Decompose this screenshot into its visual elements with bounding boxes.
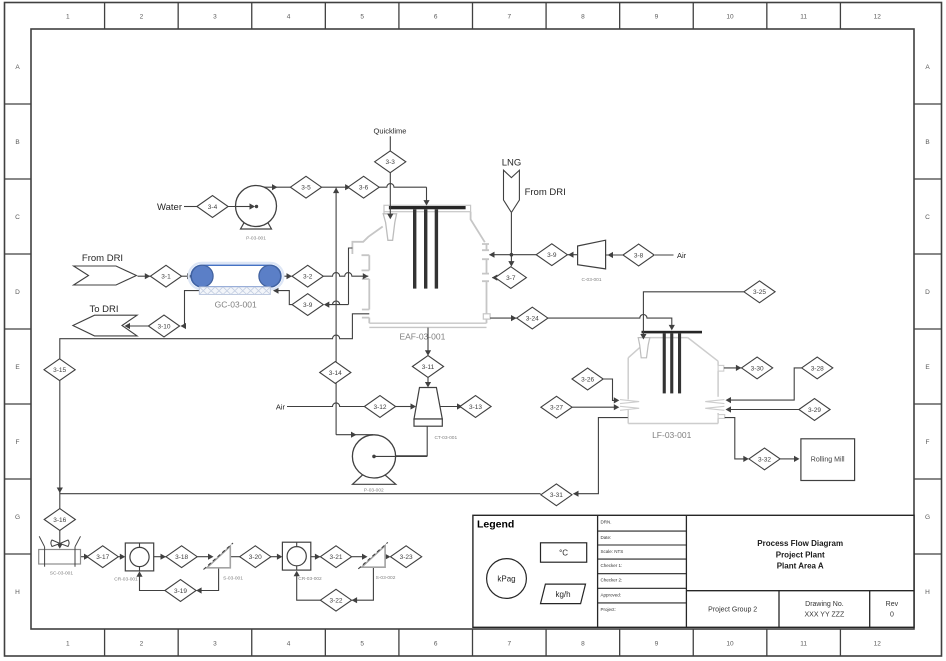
From DRI off-page arrow upper <box>74 266 137 285</box>
svg-text:7: 7 <box>507 14 511 21</box>
svg-text:S-03-002: S-03-002 <box>376 575 396 581</box>
wire 3-17 to crusher CR-03-001 <box>118 554 125 560</box>
svg-text:B: B <box>925 139 929 146</box>
svg-text:E: E <box>15 364 20 371</box>
svg-text:5: 5 <box>360 14 364 21</box>
node stream diamond 3-19 <box>165 580 196 602</box>
svg-text:3-32: 3-32 <box>758 456 771 463</box>
svg-text:3-4: 3-4 <box>208 204 218 211</box>
svg-text:3-1: 3-1 <box>161 274 171 281</box>
svg-text:C: C <box>925 214 930 221</box>
wire S-03-001 recycle to 3-19 and CR-03-001 <box>136 568 218 594</box>
node stream diamond 3-9 <box>536 244 567 266</box>
title block drawing title <box>757 539 843 571</box>
wire 3-1 to gas cooler GC <box>182 273 193 279</box>
svg-text:From DRI: From DRI <box>82 253 123 264</box>
svg-text:3-18: 3-18 <box>175 554 188 561</box>
node stream diamond 3-12 <box>364 396 395 418</box>
svg-text:kg/h: kg/h <box>555 590 570 599</box>
wire slag header from 3-31 to left <box>60 493 541 495</box>
EAF electrode 3 <box>435 209 438 288</box>
svg-text:CR-03-002: CR-03-002 <box>298 576 322 582</box>
wire 3-10 to To DRI <box>125 323 149 329</box>
EAF electrode support bar <box>389 206 466 209</box>
svg-text:Rev: Rev <box>886 601 899 608</box>
svg-text:F: F <box>16 439 20 446</box>
svg-text:3-26: 3-26 <box>581 376 594 383</box>
svg-text:To DRI: To DRI <box>89 304 118 315</box>
wire pump P-03-001 outlet to 3-5 <box>260 184 291 190</box>
vessel EAF-03-001 body <box>352 205 490 327</box>
node stream diamond 3-28 <box>802 357 833 379</box>
svg-text:kPag: kPag <box>497 574 515 583</box>
legend and title block frame <box>473 515 914 627</box>
node stream diamond 3-15 <box>44 359 75 381</box>
svg-text:3-25: 3-25 <box>753 289 766 296</box>
node stream diamond 3-9 <box>292 294 323 316</box>
svg-text:GC-03-001: GC-03-001 <box>215 300 257 310</box>
wire LF bottom right to 3-32 <box>725 418 749 462</box>
LF electrode 2 <box>670 333 673 393</box>
svg-text:3-5: 3-5 <box>301 185 311 192</box>
svg-text:0: 0 <box>890 612 894 619</box>
svg-text:3-14: 3-14 <box>329 370 342 377</box>
title block drawing number cell <box>804 601 845 619</box>
svg-text:3-3: 3-3 <box>385 159 395 166</box>
svg-text:Air: Air <box>677 251 687 260</box>
svg-text:3-23: 3-23 <box>400 554 413 561</box>
wire cooling water riser x=336 <box>335 188 337 435</box>
svg-text:A: A <box>925 64 930 71</box>
svg-text:SC-03-001: SC-03-001 <box>50 571 74 577</box>
wire EAF bottom left outlet long run to slag header <box>60 314 370 359</box>
svg-text:3-7: 3-7 <box>506 275 516 282</box>
svg-text:Legend: Legend <box>477 519 514 531</box>
svg-text:H: H <box>15 589 20 596</box>
node stream diamond 3-3 <box>375 151 406 173</box>
wire 3-9 to burner junction <box>511 254 536 256</box>
svg-text:3-29: 3-29 <box>808 407 821 414</box>
title block info rows <box>598 519 687 612</box>
svg-text:D: D <box>925 289 930 296</box>
svg-text:3-28: 3-28 <box>811 365 824 372</box>
wire 3-25 to LF cone <box>640 292 744 340</box>
node stream diamond 3-11 <box>412 356 443 378</box>
rolling mill box <box>801 439 855 481</box>
To DRI off-page arrow <box>73 315 137 336</box>
svg-text:3-22: 3-22 <box>329 598 342 605</box>
node stream diamond 3-1 <box>150 265 181 287</box>
svg-text:Drawing No.: Drawing No. <box>805 601 844 608</box>
node stream diamond 3-29 <box>799 399 830 421</box>
screen S-03-002 <box>358 542 388 569</box>
wire 3-28 to LF right upper nozzle <box>726 368 802 403</box>
svg-text:3-30: 3-30 <box>751 365 764 372</box>
svg-text:3-10: 3-10 <box>157 323 170 330</box>
node stream diamond 3-4 <box>197 196 228 218</box>
svg-text:Rolling Mill: Rolling Mill <box>811 457 845 464</box>
svg-text:3-2: 3-2 <box>303 274 313 281</box>
svg-text:12: 12 <box>874 14 882 21</box>
svg-text:LNG: LNG <box>502 158 522 169</box>
svg-text:10: 10 <box>726 14 734 21</box>
gas cooler GC-03-001 <box>189 263 284 289</box>
wire EAF bottom to 3-11 <box>425 328 431 356</box>
svg-text:3-16: 3-16 <box>53 517 66 524</box>
LF electrode support bar <box>642 331 703 334</box>
svg-text:P-03-002: P-03-002 <box>364 488 384 494</box>
wire 3-12 to CT <box>396 403 416 409</box>
node stream diamond 3-7 <box>495 267 526 289</box>
wire CR-03-002 to 3-21 <box>311 554 320 560</box>
node stream diamond 3-17 <box>87 546 118 568</box>
svg-text:Date:: Date: <box>601 535 612 540</box>
node stream diamond 3-8 <box>623 244 654 266</box>
wire quicklime label to 3-3 <box>389 136 391 150</box>
svg-text:Checker 1:: Checker 1: <box>601 563 623 568</box>
LNG off-page arrow <box>504 170 520 212</box>
legend mass flow parallelogram kg/h <box>541 584 586 604</box>
LF electrode 1 <box>663 333 666 393</box>
node stream diamond 3-10 <box>148 315 179 337</box>
node stream diamond 3-5 <box>290 176 321 198</box>
legend temperature box degC <box>541 543 587 562</box>
EAF electrode 1 <box>413 209 416 288</box>
wire S-03-002 recycle to 3-22 and CR-03-002 <box>294 567 374 603</box>
svg-text:11: 11 <box>800 14 807 21</box>
svg-text:Air: Air <box>276 402 286 411</box>
node stream diamond 3-20 <box>240 546 271 568</box>
wire 3-9 to GC hatch band inlet <box>273 288 292 305</box>
wire 3-7 to EAF right lower port <box>492 275 498 281</box>
svg-text:B: B <box>15 139 19 146</box>
svg-text:3-15: 3-15 <box>53 367 66 374</box>
svg-text:Project:: Project: <box>601 607 616 612</box>
node stream diamond 3-25 <box>744 281 775 303</box>
compressor C-03-001 <box>578 240 606 269</box>
svg-text:XXX YY ZZZ: XXX YY ZZZ <box>804 612 845 619</box>
pump P-03-002 <box>352 435 427 485</box>
svg-text:1: 1 <box>66 14 70 21</box>
svg-text:G: G <box>925 514 930 521</box>
svg-text:8: 8 <box>581 641 585 648</box>
wire EAF outlet to 3-24 and to LF top <box>490 314 675 330</box>
svg-text:CT-03-001: CT-03-001 <box>434 435 457 441</box>
title block revision cell <box>886 601 899 619</box>
svg-text:6: 6 <box>434 14 438 21</box>
svg-text:LF-03-001: LF-03-001 <box>652 430 691 440</box>
wire GC band outlet down to 3-10 <box>181 291 200 330</box>
svg-text:Scale: NTS: Scale: NTS <box>601 549 624 554</box>
svg-text:E: E <box>925 364 930 371</box>
svg-text:Process Flow Diagram: Process Flow Diagram <box>757 539 843 548</box>
svg-text:Checker 2:: Checker 2: <box>601 578 623 583</box>
svg-text:3: 3 <box>213 14 217 21</box>
feed chute cone of EAF <box>383 214 396 241</box>
slag conveyor SC-03-001 <box>39 536 81 566</box>
svg-text:2: 2 <box>140 641 144 648</box>
svg-text:Project Group 2: Project Group 2 <box>708 607 757 614</box>
wire 3-15 down to slag junction <box>57 381 63 509</box>
wire 3-27 to LF left lower nozzle <box>572 404 619 410</box>
wire LF bottom left to 3-31 <box>573 418 628 497</box>
svg-text:1: 1 <box>66 641 70 648</box>
svg-text:8: 8 <box>581 14 585 21</box>
svg-text:6: 6 <box>434 641 438 648</box>
svg-text:10: 10 <box>726 641 734 648</box>
svg-text:G: G <box>15 514 20 521</box>
node stream diamond 3-32 <box>749 448 780 470</box>
wire 3-29 to LF right lower nozzle <box>726 406 800 412</box>
svg-text:3-24: 3-24 <box>526 316 539 323</box>
svg-text:From DRI: From DRI <box>525 187 566 198</box>
wire CT to 3-13 <box>440 403 463 409</box>
node stream diamond 3-14 <box>320 362 351 384</box>
node stream diamond 3-18 <box>166 546 197 568</box>
EAF electrode 2 <box>424 209 427 288</box>
node stream diamond 3-13 <box>460 396 491 418</box>
wire 3-4 to pump P-03-001 <box>228 203 258 209</box>
node stream diamond 3-26 <box>572 368 603 390</box>
svg-text:9: 9 <box>655 14 659 21</box>
svg-text:Plant Area A: Plant Area A <box>777 562 824 571</box>
wire From DRI to 3-1 <box>138 273 151 279</box>
wire 3-26 to LF left upper nozzle <box>603 379 619 404</box>
svg-text:3-6: 3-6 <box>359 185 369 192</box>
svg-text:4: 4 <box>287 641 291 648</box>
svg-text:3-21: 3-21 <box>329 554 342 561</box>
svg-text:H: H <box>925 589 930 596</box>
screen S-03-001 <box>204 543 234 570</box>
feed chute cone of LF <box>638 338 650 358</box>
wire S-03-001 to 3-20 <box>230 554 248 560</box>
svg-text:Project Plant: Project Plant <box>776 551 825 560</box>
node stream diamond 3-30 <box>742 357 773 379</box>
svg-text:DRN.: DRN. <box>601 519 612 524</box>
wire riser to pump P-03-002 <box>336 432 373 438</box>
wire 3-3 down to EAF cone <box>387 173 393 219</box>
wire air inlet to 3-8 <box>655 254 674 256</box>
LF electrode 3 <box>678 333 681 393</box>
svg-text:Approved:: Approved: <box>601 592 622 597</box>
wire air to 3-12 <box>287 403 364 407</box>
svg-text:3-17: 3-17 <box>96 554 109 561</box>
svg-text:Water: Water <box>157 202 182 213</box>
node stream diamond 3-31 <box>541 484 572 506</box>
wire 3-18 to screen S-03-001 <box>197 554 213 560</box>
svg-text:3-31: 3-31 <box>550 492 563 499</box>
svg-text:3: 3 <box>213 641 217 648</box>
node stream diamond 3-24 <box>517 307 548 329</box>
GC-03-001 hatched band <box>199 287 270 295</box>
node stream diamond 3-6 <box>348 176 379 198</box>
wire SC outlet to 3-17 <box>81 554 90 560</box>
wire 3-8 to compressor <box>606 252 623 258</box>
wire 3-21 to screen S-03-002 <box>352 554 368 560</box>
crusher CR-03-002 <box>282 542 310 570</box>
wire GC outlet to 3-2 <box>283 273 293 279</box>
svg-text:C: C <box>15 214 20 221</box>
svg-text:Quicklime: Quicklime <box>374 127 407 136</box>
svg-text:4: 4 <box>287 14 291 21</box>
svg-text:3-11: 3-11 <box>422 364 435 371</box>
svg-text:F: F <box>926 439 930 446</box>
wire burner junction down to 3-7 <box>508 255 514 267</box>
svg-text:D: D <box>15 289 20 296</box>
node stream diamond 3-16 <box>44 509 75 531</box>
wire 3-11 to cooling tower CT <box>425 378 431 388</box>
node stream diamond 3-27 <box>541 396 572 418</box>
node stream diamond 3-22 <box>320 589 351 611</box>
wire 3-16 to conveyor SC <box>57 531 63 549</box>
node stream diamond 3-2 <box>292 265 323 287</box>
svg-text:3-13: 3-13 <box>469 404 482 411</box>
crusher CR-03-001 <box>125 543 153 571</box>
svg-text:9: 9 <box>655 641 659 648</box>
wire 3-32 to rolling mill <box>780 456 799 462</box>
svg-text:7: 7 <box>507 641 511 648</box>
cooling tower CT-03-001 <box>414 388 442 427</box>
svg-text:2: 2 <box>140 14 144 21</box>
svg-text:C-03-001: C-03-001 <box>582 277 602 283</box>
svg-text:3-8: 3-8 <box>634 252 644 259</box>
vessel LF-03-001 body <box>620 338 725 424</box>
node stream diamond 3-23 <box>391 546 422 568</box>
svg-text:°C: °C <box>559 548 568 557</box>
svg-text:3-9: 3-9 <box>303 302 313 309</box>
svg-text:P-03-001: P-03-001 <box>246 236 266 242</box>
wire compressor to 3-9 <box>568 252 578 258</box>
svg-text:5: 5 <box>360 641 364 648</box>
wire S-03-002 to 3-23 <box>385 554 391 560</box>
wire LNG down to burner junction <box>510 213 512 255</box>
wire water inlet to 3-4 <box>184 206 197 208</box>
svg-text:CR-03-001: CR-03-001 <box>114 577 138 583</box>
wire 3-2 to EAF left port <box>323 273 368 280</box>
pump P-03-001 <box>236 186 277 230</box>
wire 3-20 to crusher CR-03-002 <box>271 554 283 560</box>
svg-text:11: 11 <box>800 641 807 648</box>
svg-text:3-12: 3-12 <box>373 404 386 411</box>
legend pressure circle kPag <box>487 559 527 599</box>
wire 3-6 to EAF roof <box>379 184 429 206</box>
wire 3-5 to 3-6 with branch junction <box>322 184 351 193</box>
svg-text:EAF-03-001: EAF-03-001 <box>399 332 445 342</box>
wire LF right to 3-30 <box>724 365 742 371</box>
svg-text:A: A <box>15 64 20 71</box>
svg-text:3-19: 3-19 <box>174 588 187 595</box>
wire CT bottom to pump P-03-002 <box>377 426 427 456</box>
svg-text:12: 12 <box>874 641 882 648</box>
svg-text:3-9: 3-9 <box>547 252 557 259</box>
svg-text:3-27: 3-27 <box>550 405 563 412</box>
svg-text:3-20: 3-20 <box>249 554 262 561</box>
wire burner junction to EAF right port <box>489 252 513 258</box>
wire CR-03-001 to 3-18 <box>154 554 166 560</box>
node stream diamond 3-21 <box>320 546 351 568</box>
svg-text:S-03-001: S-03-001 <box>223 576 243 582</box>
wire EAF offgas stub down to 3-9 <box>324 248 353 308</box>
